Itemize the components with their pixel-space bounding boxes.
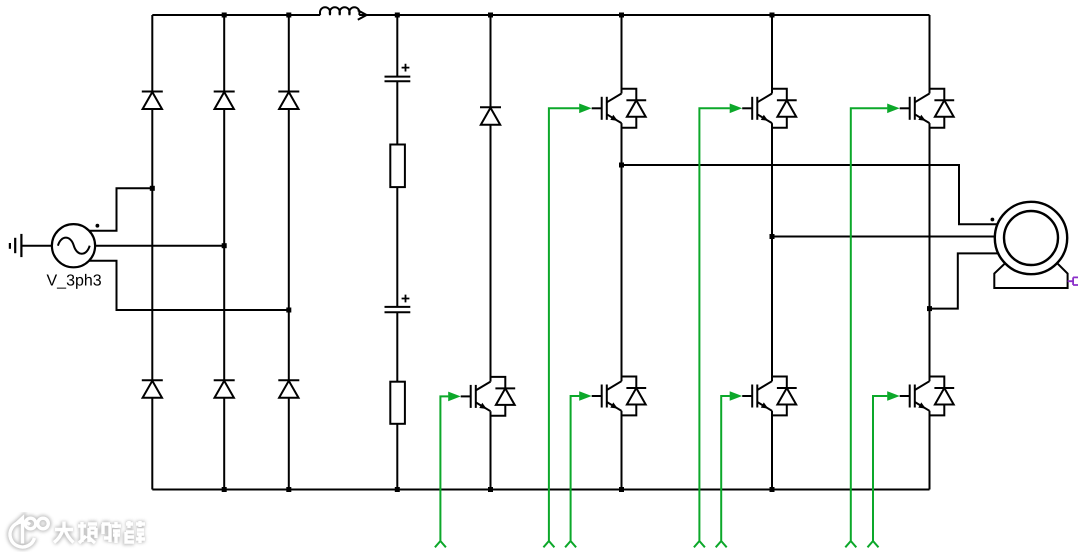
diode D6 [278, 380, 299, 398]
diode D7 [480, 107, 501, 125]
node dots source phases [150, 186, 291, 313]
wire phase U output [622, 165, 999, 224]
diode D3 [278, 92, 299, 110]
diode D5 [214, 380, 235, 398]
label V_3ph3 [46, 272, 101, 289]
resistor R1 [390, 145, 405, 188]
IGBT Q4 [592, 377, 647, 416]
ground [10, 234, 22, 257]
motor M1 [991, 202, 1068, 288]
capacitor C1 [385, 64, 411, 82]
IGBT Q6 [900, 377, 955, 416]
node dots bottom bus [222, 487, 775, 492]
IGBT Q5 [742, 377, 797, 416]
gate wire Q1 [543, 104, 591, 548]
gate wire Q4 [565, 391, 592, 547]
wire inverter leg 3 [929, 15, 931, 490]
wire top DC bus [152, 14, 929, 16]
AC source V_3ph3 [52, 224, 99, 267]
node dots inverter outputs [619, 163, 932, 312]
wire rectifier leg 1 [151, 15, 153, 490]
IGBT Q2 [742, 89, 797, 128]
diode D2 [214, 92, 235, 110]
wire source phase A to node [89, 188, 152, 230]
wire inverter leg 1 [621, 15, 623, 490]
watermark logo [10, 518, 145, 547]
inductor L1 [320, 7, 359, 15]
wire bottom DC bus [152, 489, 929, 491]
IGBT Q3 [900, 89, 955, 128]
gate wire chopper [435, 392, 461, 548]
resistor R2 [390, 382, 405, 424]
IGBT Q7 chopper [461, 377, 516, 416]
node dots top bus [222, 13, 775, 18]
IGBT Q1 [592, 89, 647, 128]
wire source phase B to node [95, 245, 224, 247]
gate wire Q5 [716, 391, 743, 547]
wire DC-link leg [396, 15, 398, 490]
motor terminal marker [1068, 277, 1078, 285]
gate wire Q2 [694, 104, 742, 548]
gate wire Q6 [868, 391, 900, 547]
wire phase W output [930, 253, 1000, 308]
wire inverter leg 2 [771, 15, 773, 490]
wire ground to source [21, 245, 52, 247]
svg-text:V_3ph3: V_3ph3 [46, 272, 101, 289]
capacitor C2 [385, 295, 411, 313]
diode D4 [142, 380, 163, 398]
gate wire Q3 [845, 104, 899, 548]
wire phase V output [772, 236, 996, 238]
wire rectifier leg 3 [288, 15, 290, 490]
diode D1 [142, 92, 163, 110]
wire source phase C to node [89, 261, 289, 310]
wire chopper leg [490, 15, 492, 490]
wire rectifier leg 2 [223, 15, 225, 490]
